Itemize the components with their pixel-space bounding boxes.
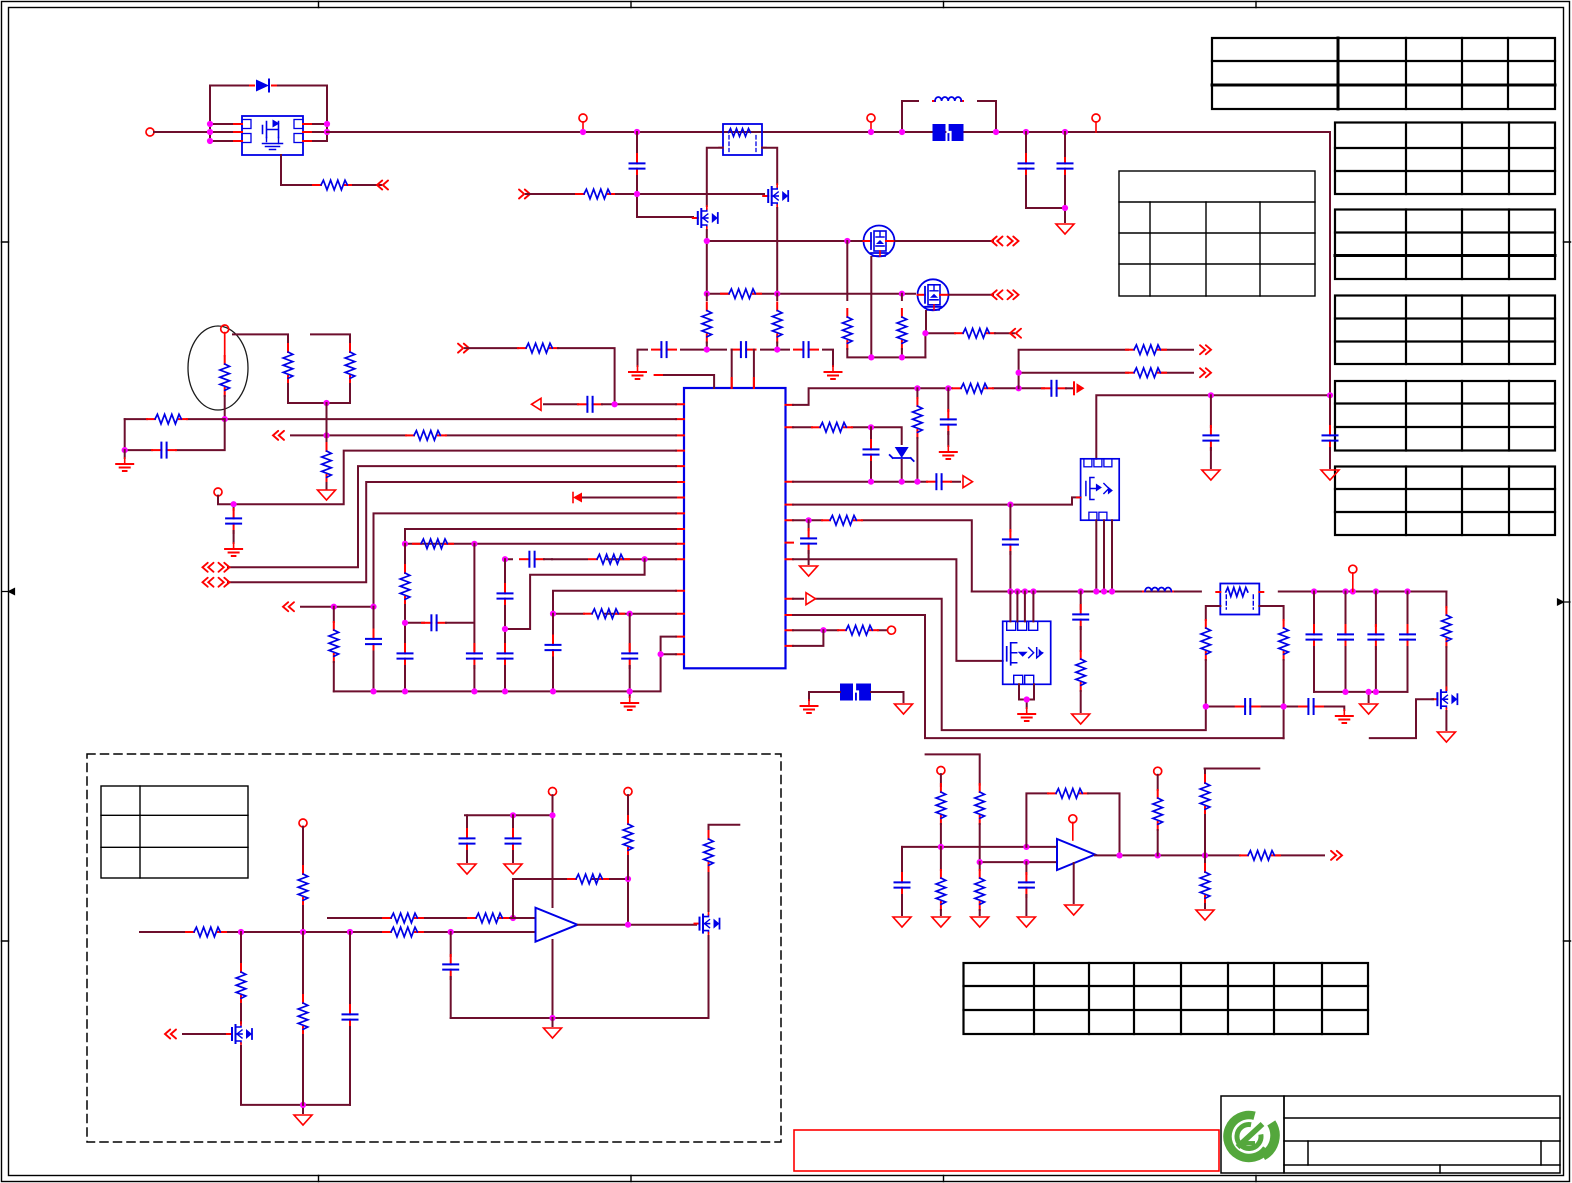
junction dot	[1024, 696, 1030, 702]
nmos Q2	[693, 206, 718, 230]
capacitor C14	[498, 584, 513, 608]
junction dots	[938, 844, 1030, 865]
capacitor C4	[652, 342, 676, 357]
wire M2 source	[924, 311, 927, 357]
opamp A2	[1057, 839, 1095, 870]
wire pin10	[405, 543, 676, 545]
main controller IC U1	[684, 388, 786, 668]
capacitor C8	[226, 509, 241, 533]
wire gate riser M2	[901, 294, 903, 300]
wire	[544, 403, 578, 405]
diode D1 bypass	[250, 80, 276, 92]
wire divider top left	[233, 334, 288, 344]
wire gate riser M1	[846, 241, 848, 300]
resistor R41	[936, 784, 946, 824]
resistor R2	[576, 189, 616, 199]
wire pin14	[553, 613, 676, 615]
note table in dashed box	[101, 786, 248, 878]
company logo green	[1227, 1115, 1275, 1158]
wire	[302, 827, 304, 866]
fuse F1	[933, 124, 964, 141]
junction dot	[502, 626, 508, 632]
wire loop top	[210, 86, 327, 142]
resistor R27	[1080, 627, 1082, 651]
resistor R11	[333, 607, 335, 622]
port circle ISNS	[937, 767, 945, 775]
resistor R6	[955, 328, 995, 338]
wire	[446, 544, 474, 650]
wire	[1064, 132, 1066, 222]
ground	[801, 700, 818, 713]
capacitor C9	[373, 607, 375, 630]
resistor R38	[704, 831, 714, 871]
wire left cap	[901, 847, 903, 874]
output caps C30-C33	[1314, 592, 1408, 627]
wire pin r11	[793, 630, 823, 646]
wire pin r3 row	[793, 481, 960, 483]
capacitor C15	[498, 644, 513, 668]
junction dot	[222, 416, 228, 422]
resistor R26	[838, 625, 878, 635]
wire	[526, 193, 576, 195]
wire cap bus	[1314, 692, 1408, 702]
junction dot	[820, 627, 826, 633]
junction dots Q1	[207, 121, 330, 144]
wire	[465, 347, 518, 349]
top rail wire VBAT	[327, 131, 1330, 133]
table T4	[1335, 296, 1555, 365]
ground triangle	[1072, 714, 1090, 724]
wire	[224, 333, 226, 356]
port circle V+	[1069, 815, 1077, 823]
port << >> COM2	[203, 578, 230, 587]
inductor L1	[933, 97, 963, 101]
resistor R35	[468, 913, 508, 923]
wire	[1026, 176, 1065, 208]
capacitor C13	[520, 552, 544, 567]
resistor R24	[812, 423, 852, 433]
capacitor C6	[794, 342, 818, 357]
ground triangle	[971, 917, 989, 927]
wire pin1	[602, 403, 676, 405]
junction dot	[402, 620, 408, 626]
pin stubs Q1 right	[303, 124, 313, 141]
junction dots rail	[580, 129, 1068, 135]
wire M1 source	[870, 257, 872, 357]
ground triangle	[1202, 470, 1220, 480]
wire snubber row	[1206, 707, 1345, 711]
frame center arrow right	[1558, 599, 1571, 605]
table T6	[1335, 467, 1555, 536]
resistor R10	[406, 431, 446, 441]
ground triangle	[318, 490, 336, 500]
wire	[1009, 552, 1011, 592]
wire	[901, 460, 903, 482]
wire pin6	[228, 482, 676, 582]
junction dot	[634, 191, 640, 197]
junction dots bus	[370, 651, 663, 694]
resistor R42	[975, 784, 985, 824]
resistor R1	[313, 180, 353, 190]
resistor R14	[589, 554, 629, 564]
wire	[349, 384, 351, 403]
capacitor C36	[512, 815, 514, 830]
wire	[925, 332, 955, 334]
junction dots	[238, 915, 516, 935]
wire	[979, 910, 981, 915]
wire gate pulldown	[281, 155, 313, 185]
wire gnd row	[451, 1017, 709, 1019]
ground triangle	[895, 704, 913, 714]
title block	[1221, 1096, 1560, 1173]
ground	[629, 366, 646, 379]
wire	[1352, 573, 1354, 592]
junction dot	[122, 447, 128, 453]
junction dot	[323, 400, 329, 406]
wire	[1157, 830, 1159, 855]
capacitor C11	[398, 644, 413, 668]
ground	[621, 697, 638, 710]
wire	[1088, 793, 1120, 855]
wire left branch	[240, 932, 242, 966]
wire cap branch	[450, 932, 452, 956]
wire RC loop	[505, 559, 645, 629]
ground	[1018, 708, 1035, 721]
resistor R13	[404, 544, 406, 565]
ground triangle	[932, 917, 950, 927]
wire	[504, 606, 506, 650]
wire	[940, 824, 942, 847]
wire vcc pin	[662, 375, 714, 388]
junction dot	[323, 432, 329, 438]
dashed option box	[87, 754, 781, 1142]
wire pin r9 long	[793, 615, 1284, 738]
wire pin r7	[793, 559, 1003, 661]
wire U3 top pins	[1010, 592, 1033, 622]
wire	[333, 662, 335, 691]
wire minus row	[902, 846, 1057, 848]
table T2	[1335, 123, 1555, 195]
wire box pins down	[707, 148, 777, 206]
wire	[1329, 448, 1331, 468]
port >> EN	[458, 344, 469, 353]
wire rail end drop	[1445, 592, 1447, 608]
junction dot	[806, 517, 812, 523]
resistor R22	[1126, 345, 1166, 355]
wire pin r1 to rail 388	[793, 388, 1044, 405]
resistor R28	[1201, 620, 1211, 660]
ground triangle	[458, 864, 476, 874]
wire pin9	[405, 529, 676, 544]
table T3	[1335, 210, 1555, 280]
wire cap bus	[638, 343, 834, 367]
wire	[241, 1046, 350, 1113]
wire	[154, 131, 232, 133]
resistor R19	[147, 414, 187, 424]
wire	[1205, 660, 1207, 728]
wire	[233, 531, 235, 543]
wire	[349, 1027, 351, 1105]
ground	[225, 543, 242, 556]
wire	[1210, 448, 1212, 468]
ground triangle	[893, 917, 911, 927]
junction dot	[922, 330, 928, 336]
port arrow NC	[573, 493, 582, 503]
ground triangle	[800, 566, 818, 576]
mosfet M1	[864, 226, 895, 257]
capacitor C27	[1080, 592, 1082, 610]
wire	[995, 332, 1014, 334]
junction dot	[1007, 502, 1013, 508]
junction dot	[300, 1102, 306, 1108]
wire pin7	[582, 497, 676, 499]
junction dot	[231, 501, 237, 507]
IC left pin stubs	[676, 404, 684, 654]
wire	[183, 1033, 227, 1035]
ground triangle	[1065, 905, 1083, 915]
port >> OUT2	[1200, 368, 1211, 377]
wire pin2 sense	[225, 418, 676, 420]
junction dots	[510, 812, 556, 818]
mosfet pair block U3	[1003, 621, 1051, 684]
wire	[302, 1035, 304, 1105]
wire	[512, 851, 514, 862]
capacitor C5	[732, 342, 756, 357]
port >> DRV	[519, 190, 530, 199]
wire rail drop right	[1096, 132, 1330, 459]
resistor R9	[518, 343, 558, 353]
wire gate Q4	[1370, 699, 1433, 738]
resistor R48	[1200, 775, 1210, 815]
port << >> SW1	[992, 237, 1019, 246]
wire	[353, 184, 381, 186]
ground	[940, 446, 957, 459]
wire U3 bottom	[1019, 684, 1034, 708]
wire	[1204, 904, 1206, 908]
port << CS	[1010, 329, 1021, 338]
port triangle PWM	[806, 593, 816, 605]
wire	[901, 349, 903, 357]
ground	[825, 366, 842, 379]
wire IC top pins	[732, 350, 754, 388]
wire row 241	[707, 240, 862, 242]
capacitor C19	[1042, 381, 1066, 396]
resistor R45	[1048, 789, 1088, 799]
capacitor C28	[1236, 699, 1260, 714]
thermistor circle	[188, 326, 248, 410]
wire	[637, 176, 693, 217]
capacitor C37	[343, 1005, 358, 1029]
resistor R37	[623, 816, 633, 856]
resistor R18	[326, 435, 328, 443]
capacitor C25	[1210, 395, 1212, 427]
wire top right	[1205, 769, 1260, 776]
zener D2	[890, 447, 914, 461]
frame zone tick marks bottom	[319, 1176, 1257, 1182]
wire	[616, 193, 764, 195]
resistor R4	[843, 309, 853, 349]
junction dots	[914, 385, 1021, 391]
wire	[466, 851, 468, 862]
ground triangle	[1437, 732, 1455, 742]
wire	[808, 551, 810, 564]
wire pin r8 port	[793, 599, 1206, 730]
wire Q5 drain	[709, 825, 740, 911]
riser to ports	[1019, 350, 1193, 389]
inductor bypass loop wire	[902, 101, 996, 132]
frame zone tick marks sides	[2, 242, 1571, 941]
capacitor C24	[808, 520, 810, 530]
resistor R8 divider	[776, 294, 778, 300]
wire	[326, 483, 328, 489]
wire	[1066, 387, 1072, 389]
ground triangle	[294, 1115, 312, 1125]
port circle V+	[549, 788, 557, 796]
port circle VSW	[1349, 565, 1357, 573]
port >> IOUT	[1331, 851, 1342, 860]
capacitor C17	[629, 614, 631, 650]
capacitor C10	[422, 615, 446, 630]
junction dot	[868, 424, 874, 430]
wire RC left	[125, 418, 225, 420]
wire	[302, 906, 304, 932]
junction dot	[1062, 205, 1068, 211]
wire output	[578, 924, 696, 926]
resistor R3	[721, 289, 761, 299]
frame zone tick marks top	[319, 2, 1257, 8]
nmos Q3	[763, 184, 788, 208]
ground	[1056, 224, 1074, 234]
junction dots	[331, 604, 377, 610]
capacitor C35	[466, 815, 468, 830]
resistor R12	[413, 539, 453, 549]
junction dot	[625, 876, 631, 882]
wire main row	[140, 931, 536, 933]
port << CTRL	[165, 1030, 176, 1039]
wire pin r2	[793, 427, 902, 444]
current sense box T1	[719, 124, 766, 155]
junction dot	[625, 922, 631, 928]
pin stubs Q1 left	[232, 124, 242, 141]
wire row 372.7	[1019, 372, 1193, 374]
wire divider top right	[311, 334, 350, 344]
wire	[871, 692, 904, 702]
wire	[373, 652, 375, 692]
capacitor C26	[1329, 395, 1331, 427]
bottom bus wire	[334, 637, 676, 692]
junction dots	[502, 556, 648, 562]
resistor R5	[897, 309, 907, 349]
port stub TP1	[579, 114, 587, 122]
wire U2 bottom pins	[1096, 520, 1112, 591]
junction dot	[612, 401, 618, 407]
junction dot	[1016, 370, 1022, 376]
ground triangle	[504, 864, 522, 874]
ground triangle	[544, 1028, 562, 1038]
wire	[1204, 815, 1206, 855]
port circle RT	[221, 325, 229, 333]
opamp A1	[536, 908, 578, 942]
nmos Q4	[1432, 687, 1457, 711]
wire T2 secondary left	[1206, 606, 1221, 620]
wire	[124, 450, 126, 458]
wire pin4	[234, 451, 676, 505]
wire	[895, 240, 993, 242]
capacitor C38	[895, 873, 910, 897]
capacitor C18	[152, 443, 176, 458]
port << >> COM1	[203, 563, 230, 572]
wire	[940, 910, 942, 915]
wire	[1025, 132, 1027, 156]
wire	[979, 824, 981, 862]
wire	[706, 230, 708, 294]
wire	[552, 1018, 554, 1026]
port << >> SW2	[992, 290, 1019, 299]
resistor R43	[940, 847, 942, 870]
wire	[224, 396, 226, 419]
junction dots	[550, 611, 633, 617]
wire	[949, 294, 993, 296]
resistor R23	[1126, 368, 1166, 378]
wire	[313, 124, 327, 141]
wire	[947, 432, 949, 446]
revision table T1 top right	[1212, 38, 1555, 109]
wire	[210, 124, 232, 141]
port triangle REF	[532, 398, 542, 410]
ground triangle	[1360, 704, 1378, 714]
wire opamp gnd	[1073, 863, 1075, 903]
capacitor C1	[1019, 154, 1034, 178]
wire rail tap down	[636, 132, 638, 156]
wire	[552, 658, 554, 692]
capacitor C22	[927, 474, 951, 489]
resistor R33	[383, 927, 423, 937]
wire pin r10	[793, 629, 886, 631]
wire	[940, 774, 942, 786]
mosfet M2	[918, 279, 949, 310]
junction dots rail	[1007, 588, 1410, 594]
resistor R7 divider	[706, 294, 708, 300]
IC right pin stubs	[786, 405, 794, 646]
wire feedback riser	[1026, 793, 1048, 847]
wire	[301, 606, 374, 608]
port << ISNS	[283, 602, 294, 611]
wire	[504, 559, 506, 584]
wire plus row	[980, 861, 1057, 863]
wire	[901, 895, 903, 915]
wire Q5 source	[708, 936, 710, 1018]
junction dots	[704, 291, 905, 297]
ground triangle	[1196, 910, 1214, 920]
junction dots	[1116, 852, 1208, 858]
resistor R15	[584, 609, 624, 619]
fuse F2	[840, 684, 871, 701]
resistor R21	[916, 388, 918, 398]
wire pin11	[505, 558, 676, 560]
wire pin13	[553, 591, 676, 614]
wire	[1025, 895, 1027, 915]
capacitor C39	[1025, 862, 1027, 874]
resistor R31	[298, 866, 308, 906]
wire	[544, 558, 552, 560]
wire	[504, 666, 506, 691]
ground	[1336, 710, 1353, 723]
resistor RT1	[220, 356, 230, 396]
nmos Q5	[695, 912, 720, 936]
port stub TP3	[1092, 114, 1100, 122]
port circle VREF	[1154, 767, 1162, 775]
capacitor C29	[1299, 699, 1323, 714]
